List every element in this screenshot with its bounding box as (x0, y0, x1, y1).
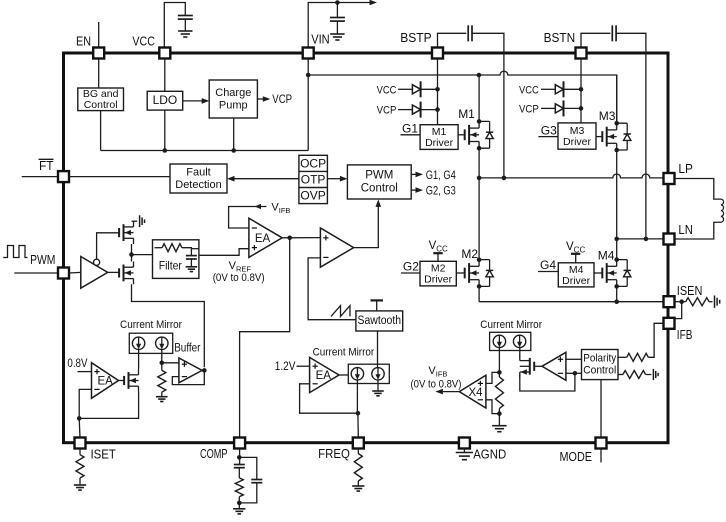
wire EA out to comparator (282, 237, 320, 239)
pin EN (93, 48, 104, 59)
block Filter (153, 240, 199, 279)
wire VCC to LDO (164, 59, 166, 92)
EN stub wire (98, 22, 100, 48)
wire IFB to resistor (648, 323, 663, 357)
resistor IFB to polarity control (627, 353, 649, 361)
wire OTP to PWM control (327, 178, 343, 180)
resistor in filter (155, 247, 163, 249)
pin MODE (596, 438, 607, 449)
pin IFB (664, 318, 675, 329)
LN node wire (617, 238, 664, 240)
svg-text:G3: G3 (541, 123, 557, 137)
wire buffer feedback (172, 370, 204, 384)
wire G2 to driver (401, 272, 420, 274)
svg-text:VIN: VIN (311, 32, 330, 47)
FREQ wire to resistor (357, 449, 359, 454)
wire comparator to PWM control (354, 204, 379, 248)
svg-text:Charge: Charge (215, 87, 251, 99)
wire inverter out to NMOS gate (108, 271, 119, 273)
svg-text:FT: FT (39, 158, 54, 173)
wire cap branch to node (239, 483, 256, 503)
arrow into fault detection (227, 176, 235, 182)
wire diode to BSTN node (564, 88, 582, 90)
VIN internal vertical (307, 59, 309, 151)
VIN rail wire with hop (308, 71, 617, 124)
resistor below left mirror (158, 370, 166, 392)
block LDO (147, 91, 183, 110)
comparator blocks OCP OTP OVP (299, 155, 328, 203)
wire EA to MOSFET gate (119, 380, 125, 382)
wire mirror left to FREQ node (356, 380, 358, 413)
block Charge Pump (209, 80, 257, 118)
ground polarity resistor (sideways) (653, 369, 658, 380)
current source right (middle mirror) (372, 368, 384, 380)
svg-text:EA: EA (255, 233, 271, 245)
wire COMP branch right (239, 457, 256, 479)
svg-text:OCP: OCP (300, 156, 326, 170)
svg-text:VCP: VCP (272, 94, 292, 106)
pin PWM (58, 268, 69, 279)
wire drain to mirror left (138, 350, 140, 370)
wire M4 drain to LN (616, 239, 618, 260)
svg-text:X4: X4 (469, 387, 484, 399)
arrow VIFB output (435, 389, 443, 395)
svg-text:FREQ: FREQ (318, 446, 350, 461)
svg-text:EA: EA (316, 370, 332, 382)
svg-text:ISEN: ISEN (677, 283, 703, 298)
BSTP internal vertical (437, 59, 439, 125)
supply tick M4 driver (571, 253, 580, 255)
wire to ISET pin (78, 418, 81, 437)
capacitor VCC bypass (178, 15, 193, 17)
wire comp plus to polarity box (566, 358, 582, 360)
ground VCC cap (178, 31, 192, 37)
wire resistor to cap (182, 248, 192, 256)
ISET wire to resistor (79, 449, 81, 455)
svg-text:PWM: PWM (365, 170, 393, 182)
wire VREF to EA plus (199, 249, 249, 256)
svg-text:G1: G1 (402, 122, 418, 136)
wire driver to M2 gate (456, 272, 464, 274)
wire gate to comparator (534, 365, 543, 367)
wire cap to filter gnd (190, 259, 192, 267)
resistor FREQ external (354, 454, 362, 482)
block Polarity Control (582, 350, 619, 380)
wire CP to bus (233, 118, 235, 151)
wire to ground (357, 481, 359, 486)
svg-text:AGND: AGND (473, 447, 506, 462)
resistor sense (495, 377, 503, 409)
supply tick for sawtooth (371, 299, 384, 301)
wire PMOS source to supply (132, 220, 138, 222)
arrow into PWM control (340, 176, 348, 182)
wire EA minus feedback (79, 389, 91, 418)
wire M2 source to ISEN line (478, 286, 480, 301)
arrow G1 G4 (416, 172, 424, 178)
wire PWM ctl out2 (411, 189, 418, 191)
ground ISEN (sideways) (715, 296, 720, 308)
pin FT (58, 171, 69, 182)
wire VCP to diode (398, 109, 412, 111)
ground left mirror resistor (156, 397, 168, 402)
svg-text:Polarity: Polarity (583, 353, 617, 365)
ISEN sense line (479, 301, 664, 303)
BSTN cap wire to LN node (616, 33, 646, 239)
BSTP cap wire left (438, 33, 467, 47)
block M3 Driver (558, 123, 596, 149)
svg-text:Driver: Driver (425, 137, 454, 149)
svg-text:Pump: Pump (219, 99, 248, 111)
body diode M2 (479, 260, 490, 287)
wire VCP to diode M3 (541, 107, 555, 109)
wire node to filter (132, 254, 153, 256)
transistor M3 (601, 131, 603, 142)
wire cap to resistor (238, 468, 240, 478)
inverter PWM input buffer (81, 257, 108, 289)
svg-text:BSTN: BSTN (544, 30, 576, 45)
wire resistor to filter edge (191, 248, 199, 250)
wire mirror left down (498, 348, 500, 377)
wire resistor 2 to side ground (646, 374, 652, 376)
op-amp EA 1.2V (310, 357, 339, 392)
wire polarity to MODE pin (600, 380, 602, 438)
pin AGND (459, 438, 470, 449)
svg-text:Control: Control (361, 183, 398, 195)
pin ISET (75, 438, 86, 449)
arrow VCP output (263, 96, 271, 102)
wire X4 minus to resistor bottom (486, 400, 500, 414)
current source left (left mirror) (132, 337, 144, 349)
svg-text:COMP: COMP (200, 446, 228, 461)
BSTN internal vertical (580, 59, 582, 123)
svg-text:LN: LN (678, 222, 693, 237)
wire OTP to Fault Detection (232, 178, 299, 180)
svg-text:(0V to 0.8V): (0V to 0.8V) (411, 379, 462, 391)
wire bubble to PMOS gate (97, 233, 120, 259)
ground FREQ (352, 486, 364, 491)
svg-text:M4: M4 (598, 249, 615, 263)
wire M1 drain to rail (478, 75, 480, 121)
diode VCP to M1 driver (412, 105, 420, 114)
svg-text:Control: Control (583, 365, 616, 377)
arrow VIFB into EA (255, 204, 262, 209)
svg-text:VCP: VCP (377, 105, 397, 117)
current source left (middle mirror) (351, 368, 363, 380)
pin ISEN (664, 296, 675, 307)
svg-text:Buffer: Buffer (174, 343, 200, 355)
wire G4 to driver (538, 271, 558, 273)
supply bus wire (101, 150, 309, 152)
ground middle mirror (372, 391, 384, 396)
wire X4 plus to resistor top (486, 372, 500, 383)
body diode M1 (479, 121, 490, 148)
wire BG to bus (100, 111, 102, 151)
block BG and Control (78, 88, 124, 111)
svg-text:Driver: Driver (424, 274, 453, 286)
PWM stub wire (14, 272, 58, 274)
block M2 Driver (420, 261, 456, 286)
wire resistor to gnd node (238, 497, 240, 509)
svg-text:BSTP: BSTP (400, 30, 432, 45)
svg-text:Detection: Detection (175, 179, 221, 191)
ground ISET (74, 485, 86, 490)
wire polarity box to resistor 2 (618, 374, 623, 376)
block Fault Detection (170, 164, 227, 193)
transistor NMOS (reference path) (118, 268, 120, 277)
arrow VIN feed (370, 0, 378, 5)
wire NMOS source to buffer output (132, 284, 205, 367)
resistor ISET external (76, 455, 84, 478)
svg-text:OTP: OTP (301, 172, 326, 186)
wire mirror right down (161, 350, 163, 371)
svg-text:MODE: MODE (560, 449, 593, 464)
svg-text:G2: G2 (403, 260, 419, 274)
wire tick to M2 driver (437, 253, 439, 261)
svg-text:Driver: Driver (562, 275, 591, 287)
diode VCP to M3 driver (555, 104, 563, 113)
pin COMP (234, 438, 245, 449)
transistor M4 (601, 268, 603, 279)
transistor sense buffer (533, 362, 535, 371)
svg-text:G4: G4 (540, 258, 556, 272)
wire 1.2V to EA plus (297, 365, 310, 367)
svg-text:M3: M3 (599, 109, 616, 123)
transistor M2 (464, 268, 466, 279)
ISEN external wire (675, 301, 686, 303)
pin LN (664, 234, 675, 245)
svg-text:EN: EN (76, 34, 91, 49)
svg-text:VCC: VCC (377, 84, 397, 96)
wire EA to mirror (339, 374, 348, 376)
capacitor BSTP bootstrap (467, 25, 469, 41)
svg-text:PWM: PWM (30, 252, 55, 267)
wire resistor to gnd (161, 392, 163, 396)
svg-text:Current Mirror: Current Mirror (120, 319, 182, 331)
svg-text:Current Mirror: Current Mirror (313, 346, 375, 358)
wire mirror to buffer plus (162, 362, 179, 364)
svg-text:M1: M1 (458, 107, 475, 121)
wire to FREQ pin (357, 413, 359, 437)
ground COMP (233, 509, 245, 514)
IC boundary box (64, 53, 669, 443)
pin VIN (303, 48, 314, 59)
VCC bypass wire (164, 3, 185, 48)
pin BSTP (432, 48, 443, 59)
capacitor BSTN bootstrap (611, 25, 613, 41)
supply tick M2 driver (433, 252, 442, 254)
current mirror box (middle) (348, 364, 389, 383)
supply bars (sideways) (140, 215, 145, 227)
current source right (right mirror) (513, 335, 525, 347)
wire driver to M1 gate (458, 134, 465, 136)
amplifier X4 (459, 375, 486, 408)
wire PMOS drain to NMOS drain (131, 244, 133, 262)
block M1 Driver (420, 125, 458, 150)
svg-text:EA: EA (98, 376, 114, 388)
current mirror box (left) (129, 333, 172, 353)
wire 0.8V to EA plus (78, 371, 92, 373)
inverter bubble (94, 259, 100, 265)
svg-text:Current Mirror: Current Mirror (480, 319, 542, 331)
wire CP to VCP (257, 98, 266, 100)
resistor ISEN external (686, 298, 709, 306)
comparator polarity (542, 352, 566, 380)
wire tick to M4 driver (575, 254, 577, 263)
op-amp EA (error amplifier) (249, 218, 282, 257)
block PWM Control (347, 165, 411, 199)
wire EN to BG (98, 59, 100, 89)
wire ISEN node to IFB pin (675, 302, 682, 319)
wire M3 drain to rail (616, 75, 618, 123)
op-amp EA 0.8V (92, 363, 119, 399)
current source left (right mirror) (493, 335, 505, 347)
wire diode to BSTN node 2 (564, 107, 582, 109)
block M4 Driver (558, 263, 594, 287)
arrow into charge pump (202, 98, 210, 104)
wire FT to Fault Detection (69, 176, 170, 178)
wire comparator minus to sawtooth (308, 258, 356, 320)
arrow into PWM control bottom (376, 199, 382, 207)
ground in filter (186, 267, 198, 272)
wire to side ground (709, 301, 712, 303)
body diode M3 (617, 123, 628, 150)
wire mirror right to ground (377, 380, 379, 391)
wire source to ISET node (79, 392, 138, 419)
wire to ground (79, 478, 81, 485)
svg-text:LDO: LDO (153, 93, 178, 107)
svg-text:Control: Control (84, 99, 118, 111)
capacitor VIN bypass (330, 17, 345, 19)
wire G1 to driver (401, 134, 421, 136)
FT stub wire (22, 176, 58, 178)
PWM square wave symbol (3, 246, 27, 258)
svg-text:LP: LP (678, 161, 693, 176)
wire M4 source to ISEN line (616, 286, 618, 301)
wire LDO to Charge Pump (183, 100, 205, 102)
svg-text:1.2V: 1.2V (275, 361, 296, 373)
wire M1 source to LP (478, 148, 480, 178)
wire LDO to bus (164, 110, 166, 150)
inductor between LP and LN (675, 179, 724, 240)
svg-text:VCC: VCC (519, 84, 539, 96)
ground AGND (456, 453, 473, 460)
pin LP (664, 173, 675, 184)
capacitor in filter (186, 255, 197, 257)
wire cap to ground (336, 21, 338, 33)
block Sawtooth (356, 311, 403, 331)
svg-text:VCC: VCC (132, 34, 155, 49)
op-amp Buffer (179, 358, 202, 383)
wire drain to mirror right (519, 348, 521, 358)
wire driver to M4 gate (594, 272, 602, 274)
sawtooth waveform symbol (331, 306, 350, 317)
wire tick to sawtooth box (376, 300, 378, 311)
transistor M1 (464, 129, 466, 140)
transistor NMOS ISET (123, 376, 125, 385)
wire EA minus to VIFB (229, 207, 267, 229)
current source right (left mirror) (156, 337, 168, 349)
svg-text:IFB: IFB (677, 327, 693, 342)
wire driver to M3 gate (596, 136, 602, 138)
wire feedback to MOSFET source (520, 373, 575, 391)
transistor PMOS (reference path) (118, 228, 120, 237)
arrow G2 G3 (416, 187, 424, 193)
capacitor COMP series (234, 464, 245, 466)
wire to VIN cap (336, 3, 338, 18)
COMP wire down (239, 449, 241, 465)
diode VCC to M1 driver (412, 85, 420, 94)
svg-text:Fault: Fault (186, 166, 210, 178)
svg-text:VCP: VCP (519, 103, 539, 115)
BSTN cap wire left (581, 33, 610, 47)
wire PWM ctl out1 (411, 173, 418, 175)
BSTP cap wire to LP node (472, 33, 504, 178)
VIN top wire (308, 3, 372, 48)
current mirror box (right) (490, 332, 531, 350)
diode VCC to M3 driver (555, 85, 563, 94)
wire sawtooth to current mirror (377, 331, 379, 368)
wire M3 source to LN (616, 150, 618, 239)
svg-text:M2: M2 (461, 247, 478, 261)
svg-text:Driver: Driver (563, 136, 592, 148)
svg-text:0.8V: 0.8V (67, 358, 87, 370)
wire VCC to diode (398, 88, 412, 90)
ground VIN cap (330, 34, 344, 40)
MODE stub below (600, 449, 602, 463)
wire diode to BSTP node (421, 88, 438, 90)
wire diode to BSTP node 2 (421, 109, 438, 111)
wire EA out to COMP pin (240, 238, 290, 438)
AGND wire to ground (463, 449, 465, 453)
wire X4 output (441, 391, 459, 393)
wire EA feedback to FREQ node (300, 384, 358, 413)
ground sense resistor (492, 426, 506, 432)
wire comp minus to polarity box (566, 372, 582, 374)
resistor COMP (235, 478, 243, 497)
wire resistor to polarity box (618, 356, 627, 358)
svg-text:Sawtooth: Sawtooth (358, 315, 402, 327)
LP node wire with hops (479, 174, 664, 178)
pin FREQ (353, 438, 364, 449)
svg-text:G2, G3: G2, G3 (426, 186, 456, 198)
pin BSTN (576, 48, 587, 59)
wire LP node to M2 drain (478, 178, 480, 260)
svg-text:Filter: Filter (159, 259, 182, 273)
wire G3 to driver (538, 136, 558, 138)
svg-text:G1, G4: G1, G4 (426, 170, 456, 182)
svg-text:ISET: ISET (91, 447, 116, 462)
wire VCC to diode M3 (541, 88, 555, 90)
comparator PWM (320, 228, 353, 267)
pin VCC (159, 48, 170, 59)
capacitor COMP parallel (251, 479, 262, 481)
svg-text:OVP: OVP (300, 189, 325, 203)
wire resistor to ground (498, 409, 500, 426)
wire cap to ground (184, 19, 186, 31)
body diode M4 (617, 260, 628, 287)
svg-text:(0V to 0.8V): (0V to 0.8V) (213, 272, 265, 284)
wire PWM to inverter (69, 271, 81, 274)
